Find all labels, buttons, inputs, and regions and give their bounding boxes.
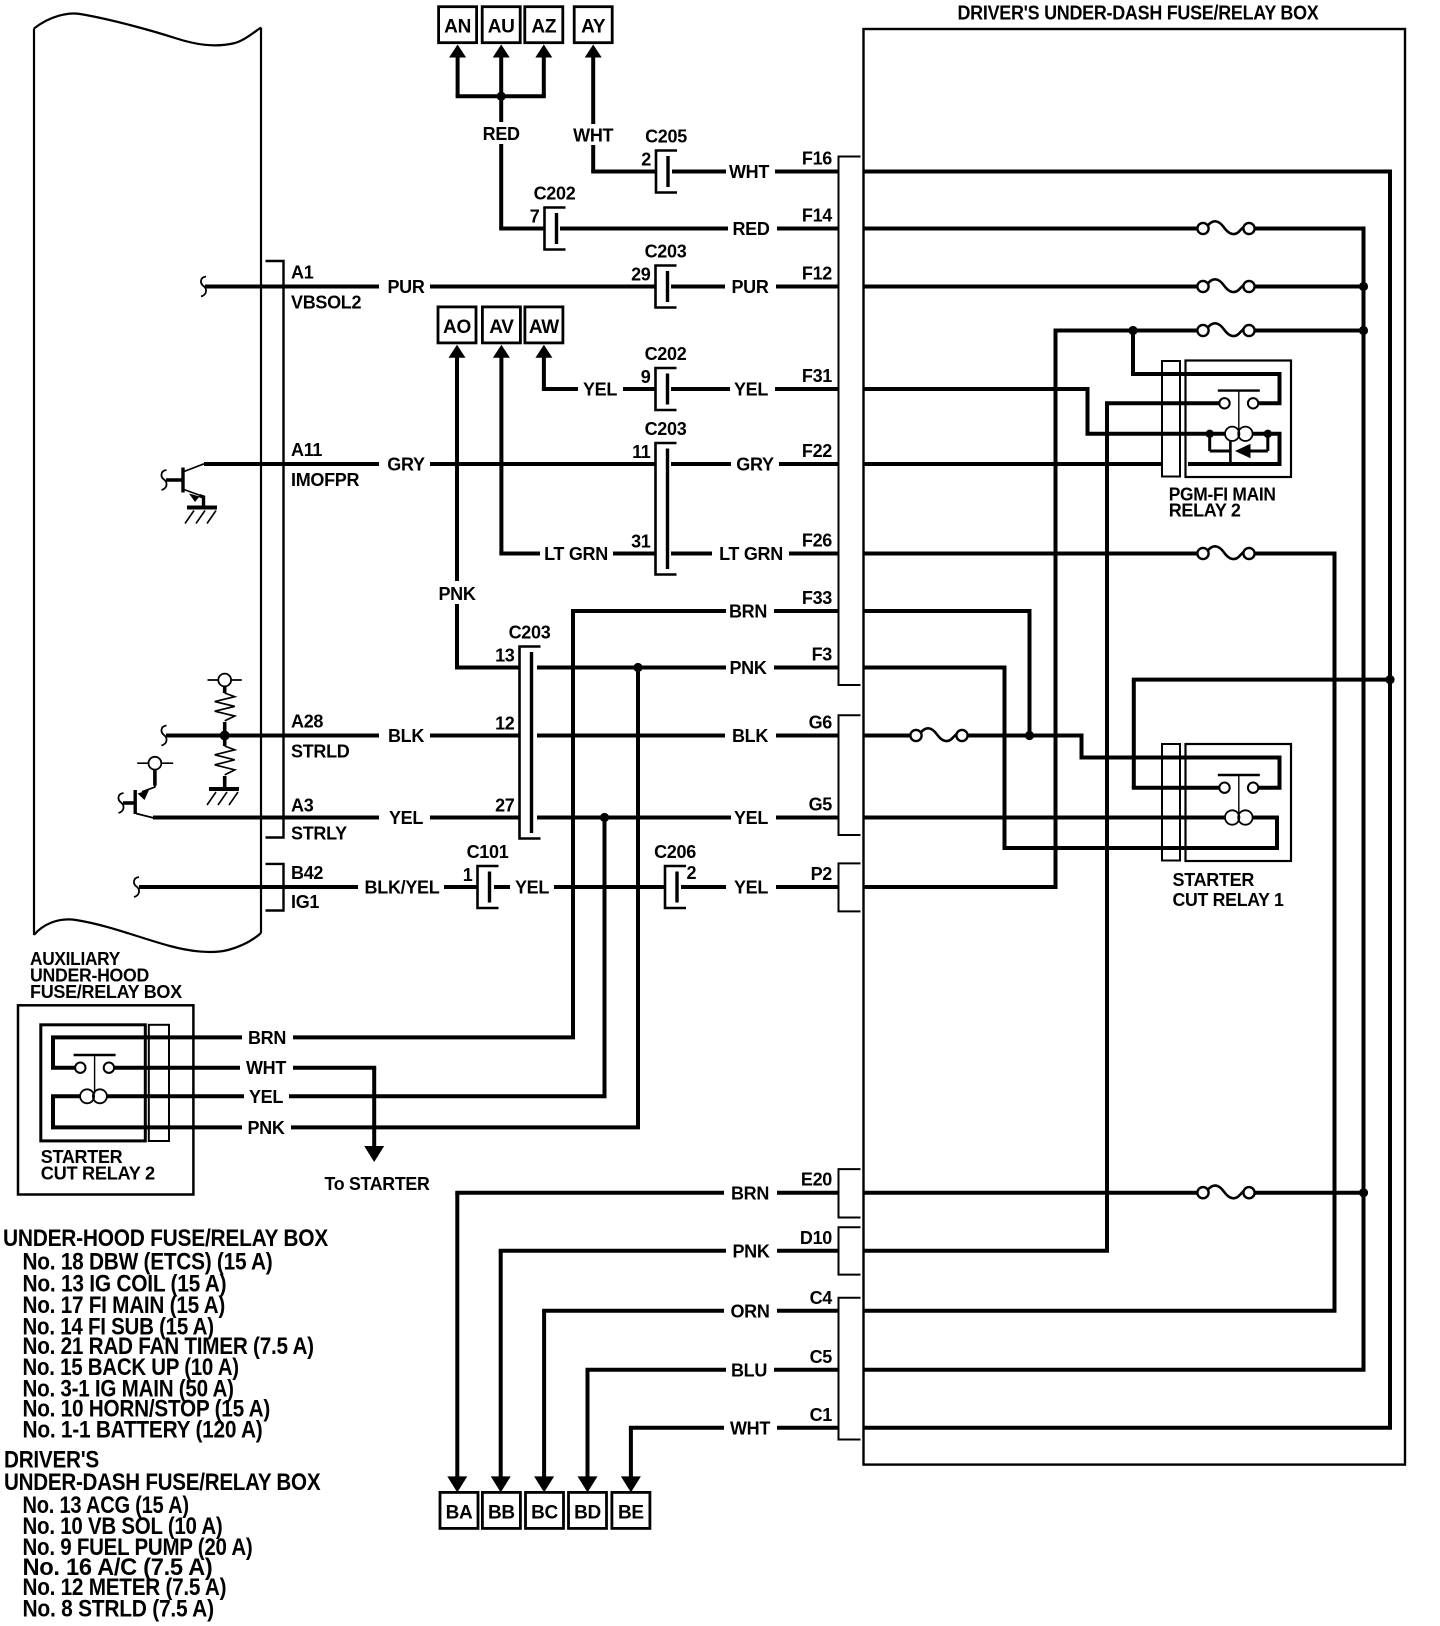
svg-text:27: 27 bbox=[495, 796, 515, 816]
svg-text:WHT: WHT bbox=[246, 1058, 286, 1078]
wire V3 vertical (row330 to P2) bbox=[1054, 331, 1058, 888]
svg-text:29: 29 bbox=[631, 265, 651, 285]
wire aux-YEL vertical bbox=[603, 818, 607, 1097]
connector C203 pins 11/31 bbox=[656, 443, 677, 575]
wire C1 WHT inside box bbox=[864, 1426, 1393, 1430]
svg-text:F22: F22 bbox=[802, 441, 832, 461]
wire F31 to relay2 coil pin bbox=[1086, 389, 1090, 434]
svg-text:C1: C1 bbox=[810, 1405, 833, 1425]
svg-text:PUR: PUR bbox=[387, 277, 424, 297]
connector box AV bbox=[482, 307, 520, 343]
relay U2 coil-right drop bbox=[1278, 434, 1282, 464]
svg-text:A28: A28 bbox=[291, 712, 323, 732]
svg-text:G5: G5 bbox=[809, 795, 833, 815]
relay U3 contact top path bbox=[51, 1035, 169, 1039]
wire F33 BRN row bbox=[571, 609, 726, 613]
wire BC stem bbox=[542, 1311, 546, 1477]
svg-text:BD: BD bbox=[574, 1502, 601, 1523]
connector C101 pin 1 bbox=[478, 866, 499, 908]
transistor Q1 (IMOFPR driver) bbox=[161, 470, 166, 490]
wire AW stem (YEL) to C202 pin 9 bbox=[535, 345, 552, 358]
svg-text:BC: BC bbox=[531, 1502, 558, 1523]
svg-text:STARTER: STARTER bbox=[1173, 870, 1255, 890]
svg-text:STRLY: STRLY bbox=[291, 824, 347, 844]
pin A28 STRLD circuit: pull-up source bbox=[208, 679, 242, 681]
svg-text:FUSE/RELAY BOX: FUSE/RELAY BOX bbox=[30, 982, 182, 1002]
svg-text:IG1: IG1 bbox=[291, 892, 319, 912]
svg-text:C206: C206 bbox=[654, 842, 696, 862]
relay U1 contact-left wire bbox=[1162, 786, 1219, 790]
connector box AZ bbox=[525, 7, 563, 43]
svg-text:AO: AO bbox=[443, 317, 471, 338]
svg-text:GRY: GRY bbox=[736, 455, 774, 475]
svg-text:BRN: BRN bbox=[731, 1183, 769, 1203]
svg-text:RED: RED bbox=[732, 219, 769, 239]
wire AO stem (PNK) down to C203 pin 13 bbox=[449, 345, 466, 358]
wire P2 YEL inside box to V3 bbox=[864, 885, 1058, 889]
wire BA stem bbox=[455, 1193, 459, 1477]
relay U2 connector bar bbox=[1162, 361, 1180, 477]
pin A3 STRLY wire bbox=[153, 816, 261, 820]
junction F33/G6 BLK bbox=[1025, 731, 1034, 740]
relay U2 contact bbox=[1219, 398, 1229, 408]
connector C202 pin 9 bbox=[656, 368, 677, 410]
pin bracket G6-G5 bbox=[839, 715, 861, 835]
wire To STARTER drop bbox=[372, 1068, 376, 1146]
pin A1 VBSOL2 wire bbox=[201, 277, 206, 297]
connector box BC bbox=[526, 1492, 564, 1528]
svg-text:CUT RELAY 1: CUT RELAY 1 bbox=[1173, 890, 1284, 910]
svg-text:C202: C202 bbox=[534, 184, 576, 204]
pin bracket D10 bbox=[839, 1227, 861, 1274]
junction V2/relay1 contact feed bbox=[1385, 675, 1394, 684]
svg-text:GRY: GRY bbox=[387, 455, 425, 475]
relay U2 contact-left wire bbox=[1162, 401, 1219, 405]
svg-text:7: 7 bbox=[530, 207, 540, 227]
relay U3 connector bar bbox=[149, 1025, 169, 1141]
svg-text:31: 31 bbox=[631, 532, 651, 552]
svg-text:F16: F16 bbox=[802, 149, 832, 169]
wire E20 BRN row left bbox=[455, 1191, 724, 1195]
svg-text:YEL: YEL bbox=[515, 878, 549, 898]
svg-text:BRN: BRN bbox=[248, 1028, 286, 1048]
pin bracket E20 bbox=[839, 1169, 861, 1217]
pin bracket F16-F3 bbox=[839, 157, 861, 686]
wire BRN vertical to aux relay bbox=[571, 611, 575, 1037]
connector box AN bbox=[439, 7, 477, 43]
wire V4 vertical (LT GRN to C4 ORN) bbox=[1333, 554, 1337, 1311]
wire D10 PNK inside box bbox=[864, 1249, 1110, 1253]
wire BB stem bbox=[499, 1251, 503, 1477]
svg-text:F3: F3 bbox=[812, 645, 833, 665]
svg-text:WHT: WHT bbox=[573, 126, 613, 146]
svg-text:YEL: YEL bbox=[734, 380, 768, 400]
connector box BA bbox=[440, 1492, 478, 1528]
wire AU stem bbox=[493, 45, 510, 58]
wire G6 BLK inside box bbox=[864, 734, 917, 738]
svg-text:1: 1 bbox=[463, 865, 473, 885]
wire F3 PNK row to pin bbox=[537, 666, 632, 670]
wire F14 RED row right bbox=[560, 227, 728, 231]
svg-text:To STARTER: To STARTER bbox=[325, 1174, 430, 1194]
wire F14 RED inside box bbox=[864, 227, 1204, 231]
svg-text:F31: F31 bbox=[802, 366, 832, 386]
relay U2 coil bbox=[1225, 427, 1239, 441]
wire B42 YEL segment bbox=[494, 885, 510, 889]
svg-text:STRLD: STRLD bbox=[291, 742, 350, 762]
svg-text:AN: AN bbox=[444, 17, 471, 38]
svg-text:C203: C203 bbox=[645, 419, 687, 439]
svg-text:VBSOL2: VBSOL2 bbox=[291, 293, 362, 313]
pin A28 STRLD wire bbox=[161, 726, 166, 746]
wire F12 PUR row right bbox=[671, 285, 725, 289]
transistor Q2 bar and base bbox=[133, 790, 136, 814]
relay U3 coil-left drop to bottom bbox=[51, 1096, 55, 1127]
relay U2 outline (PGM-FI MAIN RELAY 2) bbox=[1186, 361, 1292, 478]
svg-text:C203: C203 bbox=[509, 623, 551, 643]
fuse F14 bbox=[1197, 221, 1254, 234]
wire C1 WHT row left bbox=[629, 1426, 724, 1430]
fuse G6 bbox=[910, 728, 967, 741]
svg-text:D10: D10 bbox=[800, 1228, 832, 1248]
svg-text:C5: C5 bbox=[810, 1347, 833, 1367]
wire relay2 output vertical to D10 bbox=[1105, 403, 1109, 1251]
relay U1 contact bbox=[1219, 783, 1229, 793]
wire F16 WHT inside box to V2 bbox=[864, 170, 1393, 174]
wire aux YEL row bbox=[169, 1094, 244, 1098]
wire BD stem bbox=[586, 1370, 590, 1477]
svg-text:YEL: YEL bbox=[734, 808, 768, 828]
fuse F26 bbox=[1197, 546, 1254, 559]
wire AZ stem bbox=[535, 45, 552, 58]
relay U1 coil bbox=[1225, 810, 1239, 824]
connector C202 pin 7 bbox=[545, 208, 566, 250]
junction A28 node bbox=[220, 731, 230, 741]
svg-text:13: 13 bbox=[495, 646, 515, 666]
svg-text:F26: F26 bbox=[802, 531, 832, 551]
fuse F12 bbox=[1197, 279, 1254, 292]
wire aux WHT row bbox=[169, 1066, 240, 1070]
svg-text:PNK: PNK bbox=[732, 1241, 769, 1261]
svg-text:F12: F12 bbox=[802, 264, 832, 284]
svg-text:C202: C202 bbox=[645, 344, 687, 364]
svg-text:WHT: WHT bbox=[730, 1418, 770, 1438]
wire aux PNK row bbox=[169, 1125, 242, 1129]
svg-text:11: 11 bbox=[632, 442, 651, 462]
resistor R1 bbox=[215, 693, 235, 721]
wire C4 ORN inside box bbox=[864, 1309, 1337, 1313]
svg-text:G6: G6 bbox=[809, 713, 833, 733]
connector box BB bbox=[482, 1492, 520, 1528]
aux box outline bbox=[18, 1005, 193, 1194]
wire RED junction bar bbox=[456, 94, 546, 98]
svg-text:BB: BB bbox=[488, 1502, 515, 1523]
svg-text:PUR: PUR bbox=[731, 277, 768, 297]
svg-text:P2: P2 bbox=[811, 864, 833, 884]
svg-text:F33: F33 bbox=[802, 588, 832, 608]
wire AN stem bbox=[449, 45, 466, 58]
svg-text:LT GRN: LT GRN bbox=[544, 544, 608, 564]
svg-text:BLK: BLK bbox=[732, 726, 768, 746]
svg-text:AW: AW bbox=[529, 317, 559, 338]
wire V1 vertical bbox=[1362, 229, 1366, 1370]
wire C5 BLU row left bbox=[586, 1368, 727, 1372]
pin bracket P2 bbox=[839, 863, 861, 911]
connector box AU bbox=[482, 7, 520, 43]
relay U1 outline (STARTER CUT RELAY 1) bbox=[1186, 744, 1292, 861]
svg-text:BA: BA bbox=[446, 1502, 473, 1523]
wire F33 BRN inside box bbox=[864, 609, 1032, 613]
svg-text:PNK: PNK bbox=[438, 584, 475, 604]
connector C203 pins 13/12/27 bbox=[520, 647, 541, 839]
junction RED bbox=[497, 92, 506, 101]
svg-text:YEL: YEL bbox=[583, 380, 617, 400]
relay U2 contact top path bbox=[1162, 372, 1282, 376]
svg-text:BLK/YEL: BLK/YEL bbox=[365, 878, 440, 898]
fuse E20 bbox=[1197, 1186, 1254, 1199]
relay U3 bottom path bbox=[51, 1125, 169, 1129]
svg-text:C203: C203 bbox=[645, 242, 687, 262]
svg-text:DRIVER'S UNDER-DASH FUSE/RELAY: DRIVER'S UNDER-DASH FUSE/RELAY BOX bbox=[958, 2, 1320, 25]
svg-text:C101: C101 bbox=[467, 842, 509, 862]
wire AV stem (LT GRN) bbox=[493, 345, 510, 358]
svg-text:BLK: BLK bbox=[388, 726, 424, 746]
wire AY stem (WHT) bbox=[585, 45, 602, 58]
svg-text:A11: A11 bbox=[291, 440, 322, 460]
connector C203 pin 29 bbox=[656, 266, 677, 308]
transistor Q2 (STRLY driver): pull-up source bbox=[137, 762, 173, 764]
svg-text:RED: RED bbox=[483, 124, 520, 144]
svg-text:E20: E20 bbox=[801, 1170, 832, 1190]
svg-text:C205: C205 bbox=[645, 127, 687, 147]
wire relay2 top pin feed bbox=[1131, 331, 1135, 375]
wire E20 BRN inside box bbox=[864, 1191, 1204, 1195]
svg-text:No. 8 STRLD (7.5 A): No. 8 STRLD (7.5 A) bbox=[23, 1595, 214, 1622]
svg-text:PNK: PNK bbox=[247, 1118, 284, 1138]
svg-text:LT GRN: LT GRN bbox=[719, 544, 783, 564]
wire D10 PNK row left bbox=[499, 1249, 726, 1253]
svg-text:YEL: YEL bbox=[389, 808, 423, 828]
ECM connector B bracket (B42) bbox=[266, 864, 284, 911]
svg-text:No. 1-1 BATTERY (120 A): No. 1-1 BATTERY (120 A) bbox=[23, 1417, 263, 1444]
svg-text:RELAY 2: RELAY 2 bbox=[1169, 501, 1241, 521]
connector box AY bbox=[574, 7, 612, 43]
wire F22 GRY row right bbox=[671, 462, 731, 466]
svg-text:IMOFPR: IMOFPR bbox=[291, 470, 359, 490]
wire V2 vertical (WHT) bbox=[1388, 172, 1392, 1428]
pin bracket C4-C5-C1 bbox=[839, 1298, 861, 1440]
junction V1/row330 bbox=[1359, 326, 1368, 335]
svg-text:F14: F14 bbox=[802, 206, 832, 226]
connector box BE bbox=[612, 1492, 650, 1528]
svg-text:A1: A1 bbox=[291, 263, 314, 283]
svg-text:PNK: PNK bbox=[729, 658, 766, 678]
svg-text:BLU: BLU bbox=[731, 1360, 767, 1380]
svg-text:2: 2 bbox=[687, 863, 697, 883]
wire P2 YEL row right bbox=[681, 885, 726, 889]
svg-text:AZ: AZ bbox=[531, 17, 556, 38]
ECM connector A bracket bbox=[266, 261, 284, 838]
relay U3 outline (STARTER CUT RELAY 2) bbox=[41, 1025, 146, 1141]
svg-text:B42: B42 bbox=[291, 863, 323, 883]
resistor R2 bbox=[215, 746, 235, 775]
wire F26 LT GRN row right bbox=[671, 552, 712, 556]
wire F26 LT GRN inside box bbox=[864, 552, 1204, 556]
svg-text:12: 12 bbox=[495, 714, 515, 734]
relay U1 coil-right drop bbox=[1275, 818, 1279, 849]
ground (below R2) bbox=[209, 787, 239, 791]
svg-text:YEL: YEL bbox=[734, 878, 768, 898]
wire F12 PUR inside box bbox=[864, 285, 1204, 289]
wire C5 BLU inside box bbox=[864, 1368, 1366, 1372]
svg-text:ORN: ORN bbox=[730, 1301, 769, 1321]
svg-text:BE: BE bbox=[618, 1502, 644, 1523]
pin A11 IMOFPR wire bbox=[204, 462, 261, 466]
svg-text:BRN: BRN bbox=[729, 602, 767, 622]
relay U3 contact-right wire bbox=[114, 1066, 169, 1070]
svg-text:CUT RELAY 2: CUT RELAY 2 bbox=[41, 1164, 155, 1184]
junction V1/F12 bbox=[1359, 282, 1368, 291]
svg-text:AU: AU bbox=[488, 17, 515, 38]
svg-text:C4: C4 bbox=[810, 1288, 833, 1308]
wire G6 BLK row right bbox=[537, 734, 725, 738]
wire G5 YEL row right bbox=[598, 816, 731, 820]
wire BE stem bbox=[629, 1428, 633, 1477]
svg-text:AY: AY bbox=[581, 17, 606, 38]
wire G6 step down to relay1 top pin bbox=[1080, 736, 1084, 758]
relay U2 diode D1 bbox=[1206, 430, 1214, 438]
wire F16 WHT row right bbox=[672, 170, 726, 174]
relay U2 bottom path bbox=[1188, 462, 1282, 466]
svg-text:YEL: YEL bbox=[249, 1087, 283, 1107]
connector box BD bbox=[569, 1492, 607, 1528]
relay U1 contact top path bbox=[1278, 758, 1282, 788]
wire RED stem down to F14 row bbox=[499, 96, 503, 122]
svg-text:9: 9 bbox=[641, 367, 651, 387]
wire G5 YEL inside box to relay1 coil pin bbox=[864, 816, 1163, 820]
wire C4 ORN row left bbox=[542, 1309, 724, 1313]
junction F3/aux-PNK bbox=[633, 663, 642, 672]
wire relay1 contact feed from V2 bbox=[1132, 678, 1390, 682]
relay U2 coil wire bbox=[1162, 432, 1225, 436]
relay U3 contact bbox=[75, 1063, 85, 1073]
wire F3 PNK inside box to relay1 bottom bbox=[864, 666, 1007, 670]
wire F31 YEL row right bbox=[671, 387, 730, 391]
relay U1 connector bar bbox=[1162, 744, 1180, 861]
wire aux-PNK vertical bbox=[636, 668, 640, 1128]
wire F31 YEL inside box bbox=[864, 387, 1090, 391]
ECM outline (left component block) bbox=[34, 14, 261, 46]
connector box AW bbox=[525, 307, 563, 343]
connector C205 pin 2 bbox=[656, 151, 677, 193]
wire relay2 contact-left pin bbox=[1105, 401, 1162, 405]
svg-text:2: 2 bbox=[641, 150, 651, 170]
fuse row330 bbox=[1197, 323, 1254, 336]
relay U3 coil bbox=[80, 1089, 94, 1103]
pin B42 IG1 wire bbox=[134, 877, 139, 897]
connector C206 pin 2 bbox=[665, 866, 686, 908]
junction G5/aux-YEL bbox=[600, 813, 609, 822]
junction row330/relay2 coil-side feed bbox=[1128, 326, 1137, 335]
svg-text:A3: A3 bbox=[291, 796, 314, 816]
connector box AO bbox=[438, 307, 476, 343]
wire fuse row 330 (P2 feed) bbox=[1054, 329, 1204, 333]
junction V1/E20 bbox=[1359, 1188, 1368, 1197]
relay U1 coil wire bbox=[1162, 816, 1225, 820]
svg-text:WHT: WHT bbox=[729, 162, 769, 182]
wire F22 GRY inside box to relay2 bottom pin bbox=[864, 462, 1163, 466]
wire aux BRN row bbox=[169, 1035, 242, 1039]
svg-text:AV: AV bbox=[489, 317, 514, 338]
ground (Q1 emitter) bbox=[187, 506, 217, 510]
